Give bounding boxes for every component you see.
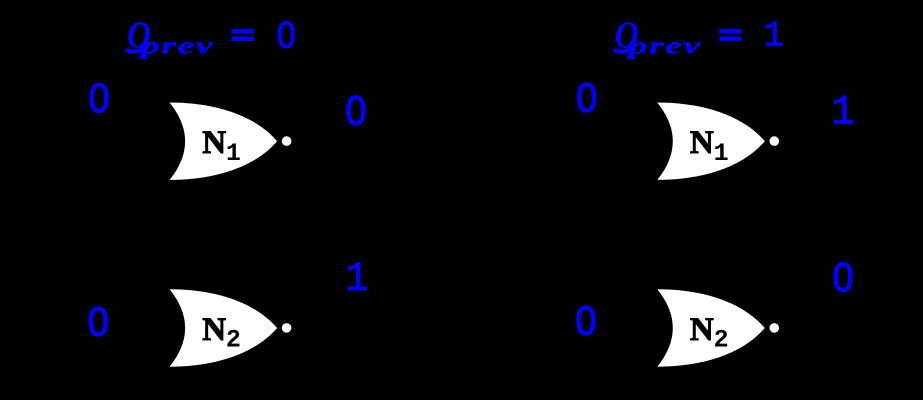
svg-text:0: 0: [277, 15, 296, 56]
svg-text:0: 0: [89, 76, 110, 122]
svg-text:N: N: [202, 125, 226, 161]
svg-text:2: 2: [714, 326, 729, 355]
svg-text:0: 0: [576, 298, 597, 344]
svg-text:N: N: [690, 125, 714, 161]
svg-text:1: 1: [831, 90, 854, 138]
svg-text:0: 0: [88, 299, 109, 345]
svg-text:N: N: [202, 312, 226, 348]
svg-text:N: N: [690, 312, 714, 348]
svg-text:1: 1: [345, 256, 368, 304]
svg-text:1: 1: [764, 17, 784, 57]
svg-text:0: 0: [833, 254, 854, 300]
svg-text:0: 0: [346, 88, 367, 134]
svg-text:1: 1: [714, 139, 729, 168]
svg-text:2: 2: [226, 326, 241, 355]
svg-text:1: 1: [226, 139, 241, 168]
svg-text:0: 0: [576, 75, 597, 121]
